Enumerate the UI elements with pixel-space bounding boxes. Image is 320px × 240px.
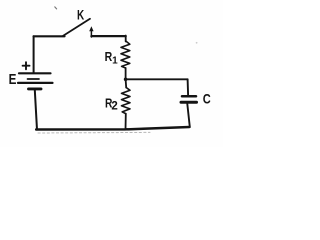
wire: capacitor bottom lead [187,104,190,127]
svg-text:K: K [77,6,84,22]
wire: R2 bottom lead to bottom rail [125,114,127,130]
resistor R2 zigzag [122,88,131,114]
capacitor C top plate [182,95,196,98]
svg-text:E: E [9,72,17,88]
battery plate 3 (long) [18,82,53,84]
scan artifact: faint dot right of R1 [196,42,198,44]
wire: bottom rail [36,127,189,130]
switch K blade (open, diagonal) [63,19,90,36]
svg-text:C: C [203,90,211,106]
battery plate 1 (long, +) [19,72,51,74]
stray scan tick above switch [55,7,57,9]
svg-text:2: 2 [111,101,117,113]
battery plate 4 (short, thick) [29,87,42,90]
svg-text:1: 1 [112,56,118,67]
wire: R1 bottom lead to junction [125,68,127,79]
resistor R1 zigzag [121,41,130,68]
battery + sign [23,62,30,69]
wire: capacitor top lead (vertical) [187,79,190,95]
battery E top lead (vertical from top-left corner) [33,36,35,72]
wire: R1 top lead (vertical) [125,36,127,42]
wire: top-left horizontal from battery corner to switch blade [34,35,65,37]
scan artifact: dotted shadow under bottom rail [38,131,150,134]
wire: top-right horizontal from contact to R1 branch corner [91,35,125,37]
switch contact arrow (up-pointing) [90,30,92,38]
wire: middle horizontal to capacitor branch [126,78,188,80]
battery bottom lead [35,90,37,130]
battery plate 2 (short dash) [28,78,40,80]
capacitor C bottom plate [181,101,197,104]
wire: R2 top lead [125,79,128,87]
node junction R1/R2/mid-wire [124,78,128,82]
